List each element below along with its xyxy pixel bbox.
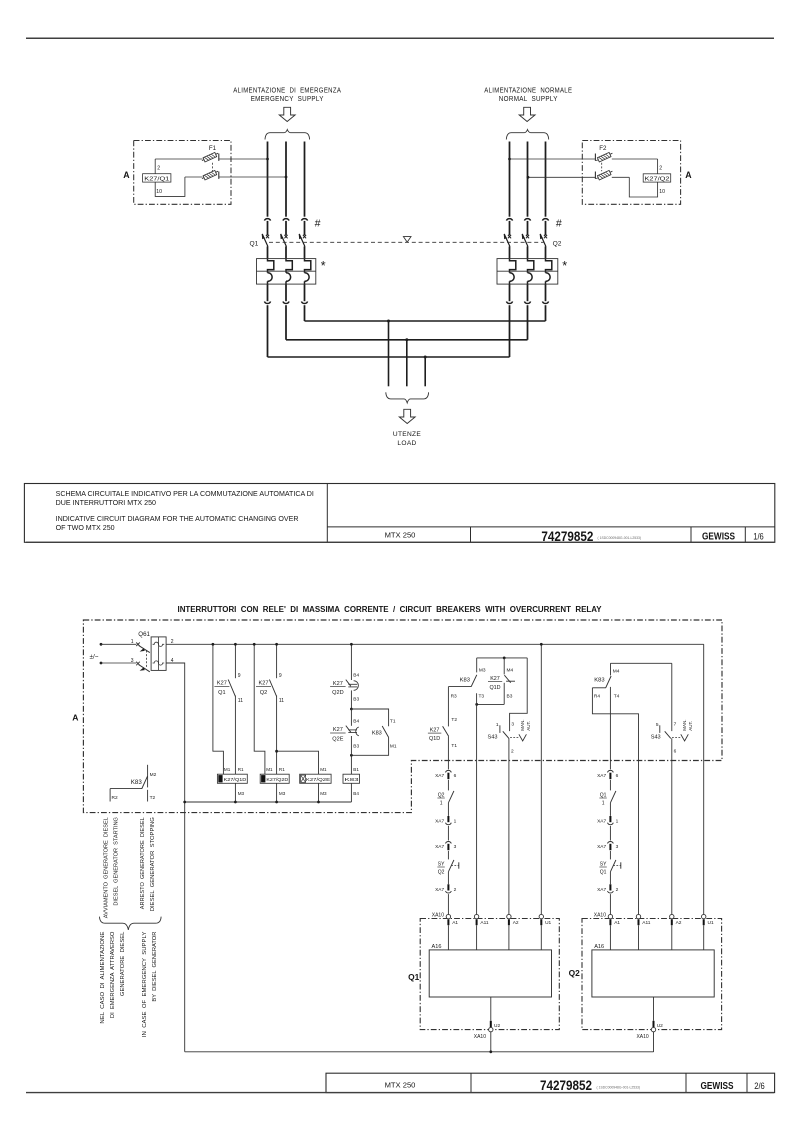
svg-text:Q1: Q1 (408, 972, 420, 982)
interlock marker # (left) (315, 217, 321, 229)
svg-text:R2: R2 (112, 795, 118, 801)
svg-text:3: 3 (131, 658, 134, 664)
svg-text:5: 5 (656, 722, 659, 728)
load drop 1 (387, 320, 390, 387)
svg-text:1: 1 (440, 801, 443, 807)
wire B3 to node T3 (475, 703, 504, 706)
timed contact K27/Q2D (B4-B3) (330, 643, 359, 709)
svg-text:XA7: XA7 (597, 773, 606, 779)
load drop 3 (424, 356, 427, 387)
svg-text:MAN.: MAN. (682, 720, 687, 731)
svg-text:Q2: Q2 (438, 870, 445, 876)
svg-text:Q1: Q1 (600, 870, 607, 876)
pin 2 (left) (157, 165, 160, 171)
svg-text:3: 3 (454, 844, 457, 850)
svg-text:Q2: Q2 (260, 690, 267, 696)
svg-text:S43: S43 (488, 735, 498, 741)
svg-text:M1: M1 (266, 767, 273, 772)
svg-text:K27: K27 (333, 681, 343, 687)
wire: fused feed L1 (right) (510, 158, 658, 160)
svg-text:U2: U2 (494, 1023, 500, 1029)
U2 return bus (185, 1050, 654, 1053)
svg-text:A1: A1 (614, 920, 620, 926)
svg-text:Q2: Q2 (569, 968, 581, 978)
contact K83 (M4-R4) (592, 663, 619, 699)
switch Q61 pole 3-4 (136, 662, 150, 672)
svg-text:3: 3 (511, 722, 514, 728)
svg-text:Q1D: Q1D (429, 736, 440, 742)
svg-text:XA10: XA10 (636, 1034, 648, 1040)
brace over normal phases (506, 130, 548, 140)
node T3 line to A11 (Q1) (477, 693, 485, 914)
wire: K27/Q2 pin2 riser (657, 159, 659, 174)
svg-text:#: # (556, 217, 562, 229)
contact K83 (M3-R3) (448, 658, 485, 700)
svg-text:T1: T1 (390, 719, 396, 725)
svg-text:A2: A2 (676, 920, 682, 926)
node line M3-M4 (Q1 block) (477, 657, 528, 660)
svg-text:XA7: XA7 (435, 887, 444, 893)
svg-text:GEWISS: GEWISS (702, 531, 735, 543)
page rule under title block 2 (26, 1092, 774, 1094)
label A (left) (123, 170, 130, 180)
relay coil K27/Q2D (260, 767, 289, 802)
svg-text:6: 6 (616, 773, 619, 779)
bus L2-R2 (286, 339, 528, 341)
svg-text:M3: M3 (479, 668, 486, 674)
wire: K27/Q1 pin10 loop (155, 177, 185, 196)
svg-text:K27: K27 (490, 676, 500, 682)
svg-text:DI EMERGENZA ATTRAVERSO: DI EMERGENZA ATTRAVERSO (110, 932, 116, 1019)
wire: supply to Q61 pole 3 (101, 662, 136, 664)
svg-text:IN CASE OF EMERGENCY SUPPL: IN CASE OF EMERGENCY SUPPLY (142, 931, 148, 1037)
svg-text:M3: M3 (320, 791, 327, 796)
brace over emergency phases (265, 130, 310, 140)
label Q2 (553, 240, 562, 247)
svg-text:A11: A11 (480, 920, 489, 926)
svg-text:INDICATIVE CIRCUIT DIAGRAM FOR: INDICATIVE CIRCUIT DIAGRAM FOR THE AUTOM… (56, 515, 299, 523)
pin 2 (right) (659, 165, 662, 171)
label: ALIMENTAZIONE DI EMERGENZA / EMERGENCY SUPPLY (233, 87, 341, 103)
svg-text:9: 9 (279, 673, 282, 679)
label F1 (209, 145, 217, 152)
svg-text:EMERGENCY SUPPLY: EMERGENCY SUPPLY (251, 96, 324, 103)
svg-text:( 1SDC000948G-001-L2533): ( 1SDC000948G-001-L2533) (598, 536, 642, 540)
svg-text:K83: K83 (372, 731, 382, 737)
svg-text:GENERATORE DIESEL: GENERATORE DIESEL (120, 931, 126, 996)
label A (control circuit) (72, 713, 78, 723)
wire: fused feed L2 (left) (185, 176, 286, 178)
normal supply arrow (519, 107, 535, 121)
svg-text:R1: R1 (279, 767, 285, 772)
svg-text:±/~: ±/~ (90, 653, 99, 660)
load drop 2 (405, 338, 408, 386)
neutral wire from Q61 pin 4 down the left side (166, 663, 185, 1052)
pin 10 (left) (156, 189, 162, 195)
junction: feed L2 to phase (left) (285, 176, 288, 179)
svg-text:( 1SDC000948G-001-L2533): ( 1SDC000948G-001-L2533) (597, 1085, 641, 1089)
svg-text:AUT.: AUT. (526, 721, 531, 731)
svg-text:T2: T2 (451, 717, 457, 723)
U1 feed line for Q1 (540, 643, 543, 915)
contact K27/Q2 (9-11) feeding coil pin R1 and K27/Q2E pin M1 (256, 643, 319, 774)
fuse block F of Q61 (151, 637, 166, 671)
rotated note: IN CASE OF EMERGENCY SUPPLY BY DIESEL GENERATOR (142, 931, 158, 1037)
switch Q61 pole 1-2 (136, 643, 150, 653)
svg-text:ALIMENTAZIONE NORMALE: ALIMENTAZIONE NORMALE (484, 87, 572, 94)
svg-text:A: A (123, 170, 130, 180)
svg-text:M4: M4 (613, 669, 620, 675)
svg-text:6: 6 (674, 748, 677, 754)
svg-text:DUE INTERRUTTORI MTX 250: DUE INTERRUTTORI MTX 250 (56, 499, 156, 507)
svg-text:74279852: 74279852 (540, 1077, 592, 1093)
svg-text:LOAD: LOAD (397, 440, 416, 447)
breaker Q1 pole 3 (phase line, drawout contacts, contact blade, overcurrent element) (299, 142, 311, 322)
svg-text:1: 1 (454, 819, 457, 825)
relay box K27/Q2 (643, 174, 671, 183)
svg-text:7: 7 (674, 722, 677, 728)
rotated note: AVVIAMENTO GENERATORE DIESEL / DIESEL GENERATOR STARTING (103, 817, 119, 918)
rotated note: ARRESTO GENERATORE DIESEL / DIESEL GENERATOR STOPPING (140, 817, 156, 911)
Q61 pin labels 1 2 3 4 (131, 639, 174, 664)
svg-text:T4: T4 (614, 694, 620, 700)
svg-text:1: 1 (616, 819, 619, 825)
svg-text:S43: S43 (651, 735, 661, 741)
timed contact K27/Q2E (B4-B3) (330, 709, 359, 755)
page rule under title block 1 (26, 541, 774, 543)
svg-text:K83: K83 (460, 678, 470, 684)
svg-text:B1: B1 (353, 767, 359, 772)
svg-text:2: 2 (616, 887, 619, 893)
svg-text:B4: B4 (353, 672, 359, 678)
breaker Q2 pole 3 (phase line, drawout contacts, contact blade, overcurrent element) (540, 142, 552, 322)
label UTENZE / LOAD (393, 431, 421, 447)
svg-text:*: * (562, 259, 567, 273)
svg-text:Q1D: Q1D (489, 685, 500, 691)
breaker Q1 pole 1 (phase line, drawout contacts, contact blade, overcurrent element) (262, 142, 274, 358)
junction B3 node (350, 708, 353, 711)
NC contact K27/Q1D (M4-B3) (488, 658, 515, 705)
svg-text:3: 3 (616, 844, 619, 850)
svg-text:11: 11 (238, 698, 243, 704)
svg-text:F2: F2 (599, 145, 607, 152)
svg-text:1/6: 1/6 (753, 531, 764, 541)
svg-text:1: 1 (602, 801, 605, 807)
junction: feed L1 to phase (right) (508, 158, 511, 161)
svg-text:Q2E: Q2E (332, 736, 343, 742)
svg-text:9: 9 (238, 673, 241, 679)
breaker unit Q1 (dashed box, XA10 terminals, A16 relay) (408, 912, 559, 1052)
pin 10 (right) (659, 189, 665, 195)
title block page 2 (326, 1073, 775, 1093)
svg-text:A16: A16 (594, 944, 604, 950)
wire: K27/Q1 pin2 riser (154, 159, 156, 174)
overcurrent relay box Q1 (257, 259, 316, 285)
selector S43 (5-7-6) for Q2 (651, 663, 693, 914)
svg-text:ARRESTO GENERATORE DIESEL: ARRESTO GENERATORE DIESEL (140, 817, 146, 909)
label F2 (599, 145, 607, 152)
svg-text:2: 2 (157, 165, 160, 171)
bus L1-R1 (268, 356, 510, 358)
title: INTERRUTTORI CON RELE DI MASSIMA CORRENTE (178, 604, 602, 614)
svg-text:XA7: XA7 (435, 844, 444, 850)
wire: fused feed L2 (right) (528, 176, 629, 178)
contact K83 (M2-T2-R2) diesel start (110, 765, 156, 802)
svg-text:10: 10 (156, 189, 162, 195)
svg-text:K83: K83 (345, 777, 360, 782)
node line M4 (Q2 block) (611, 662, 672, 664)
svg-text:M4: M4 (507, 668, 514, 674)
svg-text:XA7: XA7 (597, 887, 606, 893)
svg-text:XA10: XA10 (474, 1034, 486, 1040)
label A (right) (685, 170, 692, 180)
svg-text:10: 10 (659, 189, 665, 195)
svg-text:Q2D: Q2D (332, 690, 344, 696)
U1 feed line for Q2 (703, 644, 705, 914)
svg-text:MTX 250: MTX 250 (385, 530, 416, 539)
wire: K27/Q2 pin10 loop (629, 177, 657, 197)
svg-text:XA7: XA7 (597, 819, 606, 825)
svg-text:B4: B4 (353, 718, 359, 724)
wire R4 to A11 (Q2) (592, 688, 638, 915)
junction: feed L2 to phase (right) (527, 176, 530, 179)
top page rule (26, 37, 774, 39)
dashed enclosure A (left) (134, 141, 231, 205)
mechanical interlock dashed link Q1-Q2 (269, 241, 545, 243)
label Q61 (138, 631, 150, 638)
svg-text:1: 1 (131, 639, 134, 645)
branch to K83 contact (T1-W1) (351, 709, 396, 755)
fuse-switch F2 lower (595, 170, 612, 179)
relay box K27/Q1 (143, 174, 171, 183)
svg-text:M1: M1 (390, 743, 397, 749)
svg-text:R1: R1 (238, 767, 244, 772)
svg-text:AVVIAMENTO GENERATORE DIESEL: AVVIAMENTO GENERATORE DIESEL (103, 817, 109, 918)
svg-text:K27: K27 (217, 681, 227, 687)
svg-text:M3: M3 (279, 791, 286, 796)
svg-text:11: 11 (279, 698, 284, 704)
svg-text:XA10: XA10 (432, 912, 444, 918)
svg-text:K27: K27 (259, 681, 269, 687)
interlock motor symbol (triangle) (403, 237, 411, 243)
Q61 mechanical link (dashed) (145, 651, 147, 669)
svg-text:XA7: XA7 (435, 773, 444, 779)
svg-text:ALIMENTAZIONE DI EMERGENZA: ALIMENTAZIONE DI EMERGENZA (233, 87, 341, 94)
wire: fused feed L1 (left) (155, 158, 267, 160)
svg-text:MTX 250: MTX 250 (385, 1080, 416, 1089)
svg-text:A2: A2 (513, 920, 519, 926)
svg-text:K27/Q1D: K27/Q1D (224, 777, 247, 782)
svg-text:2/6: 2/6 (754, 1081, 765, 1091)
junction below K83 branch (350, 754, 353, 757)
svg-text:DIESEL GENERATOR STARTING: DIESEL GENERATOR STARTING (113, 817, 119, 906)
svg-text:T3: T3 (479, 694, 485, 700)
breaker Q2 pole 1 (phase line, drawout contacts, contact blade, overcurrent element) (504, 142, 516, 358)
interlock marker # (right) (556, 217, 562, 229)
load arrow (399, 409, 415, 423)
svg-text:74279852: 74279852 (541, 528, 593, 544)
rotated note: NEL CASO DI ALIMENTAZIONE DI EMERGENZA ATTRAVERSO GENERATORE DIESEL (100, 931, 126, 1024)
svg-text:GEWISS: GEWISS (701, 1080, 734, 1092)
asterisk marker (left relay) (321, 259, 326, 273)
breaker unit Q2 (dashed box, XA10 terminals, A16 relay) (569, 912, 722, 1052)
svg-text:R3: R3 (451, 694, 457, 700)
svg-text:M3: M3 (238, 791, 245, 796)
svg-text:Q1: Q1 (250, 240, 259, 247)
svg-text:#: # (315, 217, 321, 229)
svg-text:K27: K27 (430, 727, 440, 733)
svg-text:B3: B3 (353, 743, 359, 749)
svg-text:MAN.: MAN. (520, 720, 525, 731)
wire K83 coil feed (350, 755, 352, 774)
svg-text:K27/Q2D: K27/Q2D (266, 777, 288, 782)
svg-text:XA7: XA7 (435, 819, 444, 825)
svg-text:BY DIESEL GENERATOR: BY DIESEL GENERATOR (152, 931, 158, 1001)
svg-text:UTENZE: UTENZE (393, 431, 421, 438)
A1 interlock chain for Q1 (XA7 terminals, Q2/1 contact, SY/Q2) (435, 770, 459, 914)
svg-text:Q61: Q61 (138, 631, 150, 638)
svg-text:K27: K27 (333, 727, 343, 733)
svg-text:K83: K83 (131, 779, 143, 786)
svg-text:K83: K83 (594, 678, 604, 684)
svg-text:1: 1 (496, 722, 499, 728)
brace under load drops (386, 392, 429, 403)
label Q1 (250, 240, 259, 247)
svg-text:B3: B3 (507, 694, 513, 700)
relay coil K83 (343, 767, 360, 802)
contact K27/Q1D (T2-T1) in A1 chain (428, 687, 457, 770)
relay coil K27/Q2E (300, 767, 331, 802)
contact K27/Q1 (9-11) feeding coil pin R1 (214, 643, 243, 774)
svg-text:2: 2 (511, 748, 514, 754)
svg-text:F1: F1 (209, 145, 217, 152)
asterisk marker (right relay) (562, 259, 567, 273)
svg-text:AUT.: AUT. (688, 721, 693, 731)
bus L3-R3 (305, 320, 546, 322)
svg-text:K27/Q1: K27/Q1 (144, 176, 169, 182)
svg-text:A1: A1 (452, 920, 458, 926)
svg-text:NEL CASO DI ALIMENTAZIONE: NEL CASO DI ALIMENTAZIONE (100, 931, 106, 1024)
column to K27/Q1D coil pin M1 (212, 643, 224, 774)
svg-text:T1: T1 (451, 743, 457, 749)
svg-text:Q1: Q1 (218, 690, 225, 696)
svg-text:U2: U2 (657, 1023, 663, 1029)
wire: supply to Q61 pole 1 (101, 643, 136, 645)
fuse-switch F2 upper (595, 152, 612, 161)
svg-text:U1: U1 (708, 920, 714, 926)
svg-text:2: 2 (454, 887, 457, 893)
svg-text:R4: R4 (594, 694, 600, 700)
svg-text:T2: T2 (150, 795, 156, 801)
svg-text:A16: A16 (432, 944, 442, 950)
svg-text:A: A (72, 713, 78, 723)
svg-text:SCHEMA CIRCUITALE INDICATIVO P: SCHEMA CIRCUITALE INDICATIVO PER LA COMM… (56, 490, 314, 498)
fuse-switch F1 upper (202, 152, 219, 161)
coil return bus (183, 801, 351, 804)
node T4 line / A1 chain for Q2 (597, 687, 621, 915)
svg-text:*: * (321, 259, 326, 273)
supply terminals +/~ (90, 643, 103, 665)
svg-text:DIESEL GENERATOR STOPPING: DIESEL GENERATOR STOPPING (150, 817, 156, 911)
svg-text:K27/Q2E: K27/Q2E (306, 777, 330, 782)
selector S43 (1-3-2) for Q1 (488, 658, 531, 915)
svg-text:M2: M2 (150, 772, 157, 778)
title block page 1 (24, 484, 774, 544)
svg-text:XA7: XA7 (597, 844, 606, 850)
fuse-switch F1 lower (202, 170, 219, 179)
brace grouping diesel notes (100, 917, 162, 930)
svg-text:XA10: XA10 (594, 912, 606, 918)
control bus (top) (166, 643, 704, 645)
svg-text:K27/Q2: K27/Q2 (645, 176, 670, 182)
svg-text:B3: B3 (353, 696, 359, 702)
breaker Q1 pole 2 (phase line, drawout contacts, contact blade, overcurrent element) (280, 142, 292, 340)
overcurrent relay box Q2 (497, 259, 558, 285)
relay coil K27/Q1D (217, 767, 247, 802)
dashed enclosure A (right) (582, 141, 680, 205)
label: ALIMENTAZIONE NORMALE / NORMAL SUPPLY (484, 87, 572, 103)
svg-text:A: A (685, 170, 692, 180)
F1 mechanical link (dashed) (212, 163, 214, 171)
svg-text:U1: U1 (545, 920, 551, 926)
svg-text:NORMAL SUPPLY: NORMAL SUPPLY (499, 96, 558, 103)
dashed enclosure A (control circuit) (83, 620, 722, 813)
svg-text:OF TWO MTX 250: OF TWO MTX 250 (56, 524, 115, 532)
svg-text:A11: A11 (642, 920, 651, 926)
svg-text:2: 2 (659, 165, 662, 171)
svg-text:M1: M1 (320, 767, 327, 772)
emergency supply arrow (279, 107, 295, 121)
junction: feed L1 to phase (left) (266, 158, 269, 161)
column to K27/Q2D coil pin M1 (253, 643, 265, 774)
svg-text:6: 6 (454, 773, 457, 779)
svg-text:Q2: Q2 (553, 240, 562, 247)
svg-text:INTERRUTTORI CON RELE' DI: INTERRUTTORI CON RELE' DI MASSIMA CORREN… (178, 604, 602, 614)
F2 mechanical link (dashed) (601, 163, 603, 171)
svg-text:B4: B4 (353, 791, 359, 796)
svg-text:M1: M1 (224, 767, 231, 772)
breaker Q2 pole 2 (phase line, drawout contacts, contact blade, overcurrent element) (522, 142, 534, 340)
